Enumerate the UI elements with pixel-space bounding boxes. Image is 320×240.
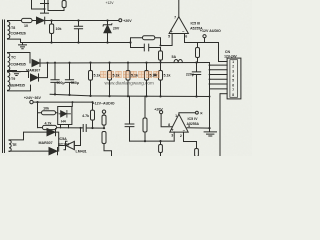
resistor ladder R2 (109, 63, 111, 97)
junction (209,83.5) (209, 83, 211, 85)
resistor (x103.5 lower) (102, 132, 106, 144)
node wire y127.5 (61, 127, 105, 129)
wire diode out to +12V bus (40, 62, 210, 65)
ground symbol (left) (19, 43, 27, 49)
junction (8,70.2) (8, 70, 10, 72)
junction (160,45) (160, 45, 162, 47)
wire to connector pin1 (219, 43, 228, 62)
wire (32, 20, 37, 22)
opto pins (61, 102, 73, 128)
capacitor (x129) (125, 96, 134, 141)
ground symbol (TC) (13, 71, 20, 76)
junction (54.5,93.9) (54, 93, 56, 95)
resistor ladder R4 (146, 63, 148, 97)
ground bus (y42) (8, 39, 131, 42)
junction (109,62.1) (108, 62, 110, 64)
winding TE (9, 140, 11, 151)
transformer core (3, 20, 5, 153)
capacitor 500u (x54.5) (51, 63, 59, 95)
terminal +12V-AUDIO mid (102, 110, 105, 113)
junction (90,62.1) (89, 62, 91, 64)
resistor (x103.5 upper) (103, 113, 105, 115)
connector pin numbers (232, 60, 234, 97)
wire T9 bottom (8, 85, 31, 91)
wire op-amp2 pin4 (187, 127, 209, 129)
capacitor 500u (x69) (65, 63, 73, 95)
junction (47,62.3) (46, 62, 48, 64)
capacitor 220u (x196) (192, 63, 200, 97)
wire x37 down (37, 102, 39, 128)
resistor 10 (series, top-left rail) (22, 18, 33, 22)
junction (51,42) (50, 41, 52, 43)
op-amp U-IC5IV (170, 114, 188, 132)
LED inside opto (59, 110, 71, 117)
junction (107,42) (106, 41, 108, 43)
junction (54.5,62.2) (54, 62, 56, 64)
wire T9 top to diode (8, 72, 29, 78)
junction (92,127.5) (91, 127, 93, 129)
resistor (x160 above bus) (160, 48, 162, 63)
diode MAR307 bridge lower (49, 148, 58, 155)
junction (209,74) (209, 74, 211, 76)
op-amp U-IC5III (169, 17, 188, 34)
junction (69,62.2) (68, 62, 70, 64)
capacitor to ground (top-left) (41, 1, 49, 14)
wire TE top (9, 132, 47, 140)
wire TC bottom to ground (8, 70, 17, 72)
vertical bus V1 (209, 63, 211, 129)
junction (160,95.9) (159, 95, 161, 97)
resistor (x196 bottom) (195, 149, 199, 157)
junction (37,101.6) (36, 101, 38, 103)
bottom node wire y140.5 (130, 140, 175, 142)
wire pin8 (220, 93, 227, 95)
wire pin3 down (173, 132, 175, 141)
resistor (top edge, cut off) (62, 1, 66, 8)
junction (209,127.6) (208, 127, 210, 129)
junction (107,20) (106, 19, 108, 21)
junction (90,95.4) (89, 95, 91, 97)
wire riser top-left (32, 1, 45, 10)
resistor ladder R3 (127, 63, 129, 97)
junction (72,101.6) (72, 101, 74, 103)
resistor 10k (from +20V rail) (51, 21, 53, 43)
resistor (x144.5) (144, 96, 146, 141)
wire TE bottom (9, 150, 49, 152)
junction (209,78.8) (209, 78, 211, 80)
junction (209,64.6) (209, 64, 211, 66)
wire pin1 to DX terminal (179, 113, 196, 115)
zener LM431 (59, 141, 67, 149)
wire pin8 down to edge (219, 94, 221, 157)
diode D (top rail) (37, 17, 45, 24)
wire pin5 (210, 78, 228, 80)
wire pin2 (210, 64, 228, 66)
wire +24V line (33, 101, 92, 103)
resistor 4.7k (x92 vertical) (92, 102, 94, 128)
resistor ladder R1 (90, 63, 92, 96)
junction (78,20) (77, 19, 79, 21)
diode MAR307 bridge upper (47, 129, 56, 136)
junction (209,69.3) (209, 69, 211, 71)
wire +20V rail (45, 20, 119, 22)
connector CN outer (227, 58, 241, 99)
optocoupler IC5A box (58, 107, 72, 125)
scan noise overlay (decorative texture, not labelled) (0, 0, 1, 1)
junction (196,96) (195, 95, 197, 97)
wire diode2 out up to bus (39, 63, 48, 78)
wire (56, 132, 59, 151)
RC parallel (right of ground bus) (131, 38, 161, 51)
resistor (x197) (197, 43, 199, 63)
wire pin7 (210, 88, 228, 90)
wire pin2 down to resistor (184, 132, 197, 148)
junction (51,20) (50, 19, 52, 21)
junction (78,42) (77, 41, 79, 43)
junction (69,94.4) (68, 94, 70, 96)
resistor ladder R5 (160, 62, 162, 96)
junction (103.5,127.6) (103, 127, 105, 129)
junction (160,61.8) (159, 61, 161, 63)
junction (130,42) (129, 41, 131, 43)
wire pin6 to +12V audio line (185, 34, 219, 43)
terminal +20V lower (160, 111, 163, 114)
node wire to op-amp pin5 (161, 34, 173, 46)
terminal +24V~36V (30, 100, 33, 103)
junction (196,62) (195, 61, 197, 63)
diode MAR307 upper (32, 59, 40, 66)
winding T9 (8, 72, 10, 90)
resistor (x160 bottom) (160, 141, 162, 156)
junction (109,95.6) (108, 95, 110, 97)
diode MAR307 lower (31, 74, 39, 81)
terminal +12V AUDIO (203, 35, 206, 38)
wire T8 top to rail (8, 21, 22, 22)
inductor 5A (on +12V bus) (174, 60, 182, 63)
wire TC top (8, 53, 31, 63)
junction (127.5,95.7) (127, 95, 129, 97)
terminal +20V (119, 19, 122, 22)
junction (144.5,140.6) (144, 140, 146, 142)
junction (92,101.6) (92, 101, 94, 103)
winding TC (8, 53, 10, 71)
winding T8 (8, 22, 10, 39)
resistor 10k (horizontal) (38, 112, 58, 114)
junction (209,96) (209, 96, 211, 98)
zener 20V (103, 21, 112, 43)
junction (80,127.4) (80, 127, 82, 129)
capacitor (x78 from rail) (74, 21, 82, 43)
junction (146,95.8) (145, 95, 147, 97)
junction (127.5,62.1) (127, 62, 129, 64)
capacitor (series, x84) (81, 125, 88, 132)
wire pin3 (210, 69, 228, 71)
junction (44,8.5) (44, 8, 46, 10)
watermark row1 (101, 71, 160, 85)
junction (146,62.1) (145, 62, 147, 64)
junction (160,140.6) (159, 140, 161, 142)
wire pin6 (210, 83, 228, 85)
ground symbol (right) (204, 128, 216, 136)
ground bus lower (y95) (50, 94, 209, 96)
resistor 4.7k (horizontal lower) (57, 127, 61, 129)
connector CN inner (230, 60, 238, 98)
wire pin7 up (178, 1, 180, 17)
wire riser with resistor (top edge) (48, 1, 64, 11)
wire pin4 (210, 74, 228, 76)
